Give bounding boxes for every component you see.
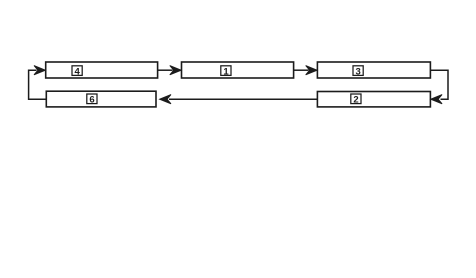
svg-text:4: 4 [75,66,81,77]
svg-text:6: 6 [89,95,94,106]
svg-text:2: 2 [353,95,358,106]
svg-text:1: 1 [223,66,229,77]
svg-text:3: 3 [356,66,361,77]
